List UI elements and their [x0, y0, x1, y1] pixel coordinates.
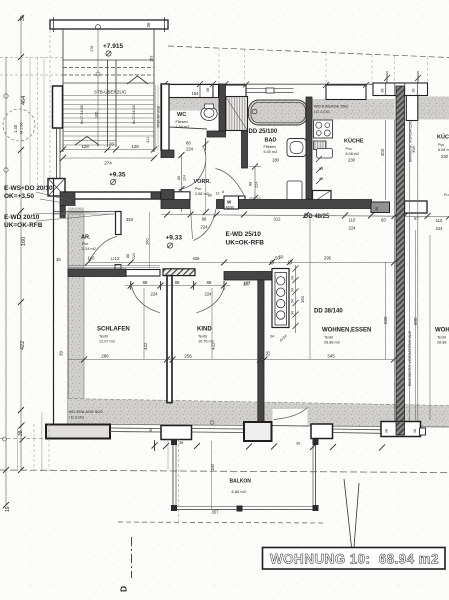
svg-text:VORR.: VORR.	[194, 179, 212, 185]
window: staircase west	[57, 128, 61, 179]
room label KUECHE right	[437, 134, 449, 198]
node circle at dim/band crossing	[210, 421, 214, 425]
label 107	[244, 281, 252, 286]
ticks on top edge row	[162, 81, 369, 88]
level label +9.33	[166, 235, 183, 249]
wall: block below kind/wohnen wall	[244, 422, 272, 441]
wall: AR north edge lines	[54, 212, 116, 215]
svg-text:DD 25/100: DD 25/100	[249, 129, 278, 135]
svg-text:230: 230	[348, 158, 356, 163]
svg-text:WD-EINLAGE 60/2: WD-EINLAGE 60/2	[69, 409, 104, 414]
svg-text:Pvc: Pvc	[82, 242, 88, 246]
BAD door dimension line	[249, 164, 261, 202]
wall: KIND north (to corridor)	[224, 272, 273, 281]
level label +7.915	[103, 43, 123, 56]
svg-text:224: 224	[205, 292, 213, 297]
svg-text:303: 303	[380, 148, 385, 156]
label 34 below unit	[270, 334, 288, 343]
svg-text:88: 88	[175, 280, 180, 285]
svg-text:20: 20	[375, 207, 379, 211]
wall: corridor north west segment	[161, 200, 190, 209]
svg-text:107: 107	[244, 281, 252, 286]
svg-text:WOHNUNG 10: 68.94 m2: WOHNUNG 10: 68.94 m2	[270, 552, 439, 567]
svg-text:312: 312	[274, 217, 282, 222]
svg-text:39: 39	[59, 350, 64, 356]
shower / appliance	[287, 181, 302, 201]
svg-text:WOHN: WOHN	[435, 328, 449, 334]
stair landing edge lines	[63, 60, 154, 83]
label E-WS+DO 20/10	[4, 185, 53, 200]
svg-text:30: 30	[149, 428, 153, 432]
svg-text:D: D	[119, 586, 129, 592]
svg-text:6.08 m2: 6.08 m2	[438, 148, 449, 152]
svg-text:STB-ÜBERZUG: STB-ÜBERZUG	[94, 89, 127, 95]
svg-text:160: 160	[21, 237, 27, 246]
trennfuge joint lines	[156, 85, 159, 150]
labels 38 at party wall bottom	[385, 429, 418, 433]
wall: corridor north east segment	[217, 200, 372, 209]
doors dimension line	[125, 281, 230, 290]
svg-text:88: 88	[143, 280, 148, 285]
svg-text:224: 224	[255, 182, 259, 188]
svg-text:Fliesen: Fliesen	[264, 145, 276, 149]
window box wohnen	[311, 424, 333, 439]
label 50 above kitchen unit	[270, 255, 292, 265]
tick crosses below bottom wall	[152, 440, 386, 451]
svg-text:BALKON: BALKON	[230, 479, 252, 485]
rotated 88/224 labels left of schlafen door	[0, 0, 1, 1]
long dashed line y470	[0, 470, 449, 473]
svg-text:8x17.94/28: 8x17.94/28	[80, 105, 84, 124]
svg-text:110: 110	[436, 218, 443, 223]
svg-text:311: 311	[146, 137, 150, 143]
wall: bottom left corner block	[46, 425, 110, 439]
kitchen unit dim chain	[291, 265, 306, 333]
svg-text:178: 178	[90, 46, 94, 52]
building top edge line	[161, 83, 394, 85]
corridor dim row y262	[85, 259, 397, 266]
label WD-EINLAGE bottom	[69, 409, 104, 420]
svg-text:128: 128	[81, 144, 89, 149]
party wall face lines	[394, 120, 396, 422]
svg-text:WD-EINLAGE 65/2: WD-EINLAGE 65/2	[314, 104, 349, 109]
kitchen small dims	[316, 156, 323, 184]
entry dim line vertical	[179, 152, 185, 212]
window lines above BAD	[246, 88, 294, 93]
dimension line: far left vertical	[3, 57, 9, 508]
svg-text:45/90: 45/90	[226, 206, 235, 210]
party wall strip bottom end	[396, 422, 405, 436]
room label AR	[81, 235, 96, 252]
wall: corridor south west dark	[68, 269, 126, 277]
svg-text:224: 224	[349, 226, 357, 231]
svg-text:60: 60	[381, 218, 386, 223]
svg-text:Textil: Textil	[324, 336, 333, 340]
BAD door arc	[216, 169, 245, 196]
corridor mid dim line	[149, 212, 151, 268]
svg-text:308: 308	[411, 146, 416, 153]
svg-text:286: 286	[101, 354, 109, 359]
wall: left outer line	[53, 179, 55, 424]
washbasin	[287, 139, 306, 157]
window glazing lines left	[110, 428, 161, 432]
SCHLAFEN door arc	[132, 286, 161, 313]
leader lines E-WS	[36, 192, 76, 205]
bottom left vertical lines	[0, 412, 179, 522]
AR rotated door spec	[126, 253, 136, 259]
lintel above entry	[174, 192, 190, 200]
wall band: WC north exterior	[168, 98, 226, 111]
svg-text:30: 30	[296, 442, 300, 446]
corridor dim labels y258	[115, 256, 332, 262]
svg-text:+7.915: +7.915	[103, 43, 123, 50]
svg-text:I.D.3.OG: I.D.3.OG	[314, 109, 330, 114]
lintel white corridor south	[126, 270, 160, 277]
node circle on beam	[96, 25, 101, 147]
stair dimension row 274	[60, 155, 157, 166]
svg-text:28.88 m2: 28.88 m2	[324, 341, 340, 345]
svg-text:2.58 m2: 2.58 m2	[195, 192, 209, 196]
svg-text:357: 357	[212, 510, 220, 515]
balcony corner posts	[171, 439, 319, 512]
dimension line: second left vertical	[18, 15, 24, 473]
svg-text:150: 150	[210, 463, 215, 471]
KIND door arc	[197, 286, 225, 313]
svg-text:UK=OK-RFB: UK=OK-RFB	[226, 240, 265, 247]
washing machine box	[224, 196, 239, 210]
entry spec dim line	[203, 144, 209, 215]
svg-text:153: 153	[150, 56, 154, 62]
vertical dim lines in rooms	[144, 216, 430, 420]
svg-text:34: 34	[291, 299, 295, 303]
svg-text:34: 34	[291, 288, 295, 292]
svg-text:KÜCHE: KÜCHE	[437, 134, 449, 141]
svg-text:164: 164	[300, 295, 305, 303]
svg-text:1.40: 1.40	[13, 124, 18, 133]
stair stringer double line	[108, 60, 117, 147]
svg-text:88: 88	[249, 182, 253, 186]
svg-text:BEIDSEITIG VORSATZSCHALE: BEIDSEITIG VORSATZSCHALE	[408, 330, 412, 386]
room label WOHNEN ESSEN	[322, 328, 371, 345]
counter grill piece	[314, 141, 327, 150]
VORR door arc to corridor	[191, 209, 217, 241]
room label SCHLAFEN	[97, 327, 130, 344]
balcony centre dim line	[211, 441, 213, 509]
svg-text:AR.: AR.	[81, 235, 91, 241]
AR door labels	[88, 256, 115, 262]
svg-text:19: 19	[5, 506, 11, 512]
wall band: AR west upper	[68, 208, 84, 215]
wall: BAD east	[306, 97, 312, 199]
wall band: kitchen north exterior	[312, 99, 395, 120]
wall: right apartment stub	[405, 201, 428, 213]
party wall hatched strip	[396, 86, 405, 436]
stair dimension row	[60, 142, 157, 153]
svg-text:34: 34	[291, 311, 295, 315]
svg-text:57: 57	[414, 216, 419, 221]
terrace door opening	[273, 408, 309, 427]
svg-text:34: 34	[291, 276, 295, 280]
svg-text:Pvc: Pvc	[346, 147, 352, 151]
leader lines E-WD	[33, 212, 113, 222]
corridor south thin lines	[68, 266, 160, 268]
svg-text:38: 38	[56, 257, 61, 262]
svg-text:Textil: Textil	[437, 336, 446, 340]
svg-text:BAD: BAD	[265, 138, 277, 144]
svg-text:34: 34	[270, 335, 274, 339]
lintel hatched above bedroom wall	[163, 269, 195, 276]
svg-text:166: 166	[95, 112, 99, 118]
svg-text:6.84 m2: 6.84 m2	[232, 489, 247, 494]
lintel box above WC	[165, 85, 213, 98]
svg-text:KIND: KIND	[197, 327, 212, 333]
wall: top STB beam	[50, 17, 168, 32]
room label KIND	[197, 327, 214, 344]
room label BALKON	[230, 479, 252, 495]
svg-text:422: 422	[20, 341, 26, 350]
svg-text:TRENNFUGE: TRENNFUGE	[157, 105, 161, 128]
svg-text:E-WD 25/10: E-WD 25/10	[226, 231, 262, 238]
wall: SCHLAFEN/KIND divider	[167, 276, 172, 403]
label WD-EINLAGE kitchen	[314, 104, 349, 115]
wall band: right apartment north exterior	[418, 97, 449, 120]
svg-text:224: 224	[132, 253, 136, 259]
lintel box above party wall	[373, 83, 428, 96]
level label +9.35	[109, 172, 126, 185]
dim cross at 205	[203, 138, 209, 150]
wall: shaft south / BAD west upper	[242, 131, 248, 169]
dimension labels below bottom wall	[179, 441, 300, 446]
svg-text:128: 128	[131, 144, 139, 149]
lintel box above shaft	[224, 85, 246, 99]
leader V to title box	[344, 479, 359, 547]
stair direction chevron bottom	[75, 137, 99, 146]
svg-text:Pvc: Pvc	[195, 187, 201, 191]
detail bubble: dashed circle	[3, 109, 35, 141]
balcony dim labels	[210, 463, 219, 514]
wall: landing south wall	[60, 192, 161, 218]
entry rotated labels 86 224	[177, 175, 187, 181]
svg-text:KÜCHE: KÜCHE	[344, 138, 364, 145]
window glazing lines right	[333, 429, 382, 433]
svg-text:E-WD 20/10: E-WD 20/10	[4, 214, 40, 221]
WC south edge line	[169, 127, 207, 129]
window glazing lines middle	[192, 429, 245, 433]
svg-text:88: 88	[202, 217, 207, 222]
AR door small stop	[115, 265, 121, 270]
svg-text:353: 353	[126, 217, 134, 222]
wall: staircase west wall	[53, 86, 63, 128]
svg-text:464: 464	[21, 96, 27, 105]
svg-text:345: 345	[327, 354, 335, 359]
entry door labels	[186, 141, 194, 152]
svg-text:274: 274	[104, 161, 112, 166]
svg-text:5.40 m2: 5.40 m2	[264, 150, 278, 154]
kitchen counter block	[272, 269, 289, 328]
svg-text:38: 38	[205, 87, 210, 92]
svg-text:224: 224	[183, 175, 187, 181]
dashed drop lines from roof projection	[219, 48, 428, 85]
svg-text:2.24 m2: 2.24 m2	[82, 247, 96, 251]
svg-text:E-WS+DO 20/10: E-WS+DO 20/10	[4, 185, 53, 192]
svg-text:Pvc: Pvc	[438, 143, 444, 147]
lintel box above kitchen	[326, 85, 366, 100]
svg-text:DD 48/25: DD 48/25	[304, 214, 330, 220]
dashed projection line to right	[168, 46, 449, 58]
svg-text:Textil: Textil	[198, 335, 207, 339]
svg-text:160: 160	[145, 238, 150, 245]
svg-text:426: 426	[193, 256, 201, 261]
dashed line y522	[118, 522, 326, 523]
bathtub	[249, 100, 308, 125]
svg-text:SCHLAFEN: SCHLAFEN	[97, 327, 130, 333]
room dim line y359	[68, 357, 397, 363]
svg-text:Fliesen: Fliesen	[176, 120, 188, 124]
svg-text:WC: WC	[177, 112, 186, 118]
svg-text:OK=+3.50: OK=+3.50	[4, 193, 34, 200]
room label WC	[176, 112, 190, 129]
wall band: bottom exterior (south wall)	[68, 399, 449, 428]
room label VORR	[194, 179, 212, 196]
svg-text:224: 224	[186, 147, 194, 152]
svg-text:295: 295	[324, 256, 332, 261]
svg-text:224: 224	[201, 225, 209, 230]
svg-text:Textil: Textil	[99, 335, 108, 339]
stair treads	[63, 96, 154, 146]
svg-text:230: 230	[441, 154, 449, 159]
svg-text:DD 38/140: DD 38/140	[314, 309, 343, 315]
projection lines upper left	[0, 30, 63, 192]
svg-text:Pu: Pu	[444, 193, 449, 197]
svg-text:+9.33: +9.33	[166, 235, 183, 242]
svg-text:422: 422	[211, 342, 216, 350]
wall: staircase east wall	[161, 84, 169, 150]
label E-WD 25/10	[226, 231, 265, 247]
svg-text:110: 110	[349, 218, 356, 223]
svg-text:+9.35: +9.35	[109, 172, 126, 179]
section marker D line	[131, 537, 133, 578]
wall: WC west	[162, 84, 170, 151]
svg-text:224: 224	[436, 226, 444, 231]
svg-text:28.88: 28.88	[437, 341, 447, 345]
rotated room dims	[59, 316, 419, 356]
svg-text:I.D.3.OG: I.D.3.OG	[69, 415, 85, 420]
wall: WC east (to shaft)	[219, 84, 226, 134]
room dim labels	[101, 354, 335, 359]
wall: WC west foot	[161, 150, 174, 158]
corridor dim labels	[201, 216, 444, 231]
right apartment vorsatzschale lines	[410, 120, 418, 422]
svg-text:12: 12	[216, 192, 220, 196]
doors dim labels	[143, 280, 212, 297]
AR door arc	[89, 237, 117, 262]
svg-text:12.07 m2: 12.07 m2	[99, 340, 115, 344]
room label BAD	[264, 138, 280, 163]
svg-text:36: 36	[146, 22, 151, 28]
toilet	[201, 104, 217, 121]
shaft with vent hatching	[226, 97, 248, 131]
svg-text:12: 12	[115, 256, 120, 261]
svg-text:154: 154	[192, 91, 200, 96]
svg-text:88: 88	[207, 280, 212, 285]
svg-text:50: 50	[279, 255, 284, 260]
svg-text:224: 224	[151, 292, 159, 297]
svg-text:WOHNEN,ESSEN: WOHNEN,ESSEN	[322, 328, 371, 334]
svg-text:6.08 m2: 6.08 m2	[346, 152, 360, 156]
title box WOHNUNG 10	[263, 548, 446, 570]
lintel box narrow	[213, 85, 219, 98]
svg-text:38: 38	[179, 441, 183, 445]
window in right band	[406, 96, 418, 121]
wall: west corner block with X brace	[48, 179, 65, 197]
wall: WC south	[207, 131, 226, 137]
fridge with diagonal	[313, 191, 332, 203]
svg-text:256: 256	[184, 354, 192, 359]
wall: KIND/WOHNEN divider	[258, 280, 264, 423]
svg-text:140: 140	[88, 256, 96, 261]
wall band: left exterior (west wall)	[68, 214, 84, 424]
svg-text:38: 38	[381, 89, 385, 93]
small white box right of party wall block	[420, 428, 426, 435]
svg-text:38: 38	[412, 89, 416, 93]
wall: party wall bottom block	[381, 422, 421, 437]
svg-text:UK=OK-RFB: UK=OK-RFB	[4, 222, 43, 229]
wall: AR east (to VORR)	[116, 212, 122, 235]
stair side rails	[63, 29, 154, 152]
wall: kitchen south block	[371, 202, 390, 213]
kitchen interior dim line	[385, 120, 387, 200]
svg-text:88: 88	[126, 254, 130, 258]
door stub BAD south	[239, 196, 246, 204]
window box schlafen	[161, 426, 192, 440]
svg-text:M 1:50: M 1:50	[20, 122, 24, 134]
svg-text:38: 38	[413, 429, 417, 433]
svg-text:88: 88	[186, 141, 191, 146]
svg-text:8x17.94/28: 8x17.94/28	[132, 105, 136, 124]
svg-text:180: 180	[272, 158, 280, 163]
svg-text:38: 38	[18, 430, 24, 436]
svg-text:30: 30	[20, 15, 26, 21]
room label WOHNEN right	[435, 328, 449, 345]
svg-text:38: 38	[385, 429, 389, 433]
svg-text:25: 25	[266, 350, 271, 356]
svg-text:86: 86	[177, 176, 181, 180]
svg-text:20: 20	[109, 142, 115, 147]
balcony outline double	[173, 441, 316, 510]
label E-WD 20/10	[4, 214, 43, 229]
stair direction chevron top	[127, 76, 148, 84]
svg-text:80: 80	[208, 194, 212, 198]
entry door arc	[179, 147, 206, 190]
wall: entry south stub	[161, 190, 174, 201]
tick crosses above party wall	[384, 71, 421, 83]
corridor dim line	[161, 212, 449, 220]
svg-text:6: 6	[222, 190, 224, 194]
small labels above washing machine	[208, 190, 224, 198]
room label KUECHE	[344, 138, 364, 163]
stove	[314, 120, 333, 138]
sink	[317, 149, 333, 159]
